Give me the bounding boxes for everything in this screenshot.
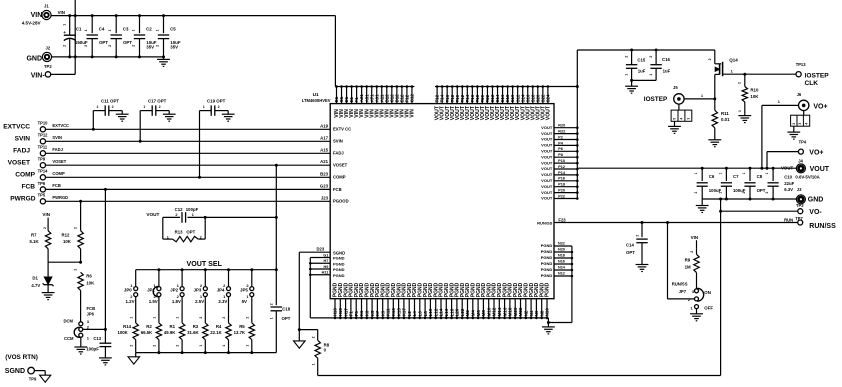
svg-text:M22: M22 bbox=[518, 307, 523, 316]
svg-text:M16: M16 bbox=[502, 307, 507, 316]
svg-text:1: 1 bbox=[84, 29, 88, 31]
svg-text:0.6V-5V/10A: 0.6V-5V/10A bbox=[795, 174, 819, 179]
resistor R5 13.7K bbox=[234, 296, 255, 352]
svg-text:JP1: JP1 bbox=[147, 287, 155, 292]
svg-text:D1: D1 bbox=[32, 275, 38, 280]
svg-text:M2: M2 bbox=[465, 310, 470, 317]
svg-text:L20: L20 bbox=[455, 308, 460, 316]
svg-text:VOUT: VOUT bbox=[541, 149, 553, 154]
jumper JP3 2.5V bbox=[194, 270, 208, 304]
svg-text:2: 2 bbox=[792, 123, 796, 125]
U1 pin D23 SGND bbox=[299, 247, 345, 256]
svg-text:K9: K9 bbox=[380, 310, 385, 316]
svg-text:CCM: CCM bbox=[64, 336, 74, 341]
svg-text:R1: R1 bbox=[170, 324, 176, 329]
svg-text:C17 OPT: C17 OPT bbox=[148, 98, 167, 103]
svg-text:L14: L14 bbox=[439, 308, 444, 316]
svg-text:1: 1 bbox=[176, 317, 180, 319]
svg-text:VO-: VO- bbox=[809, 209, 822, 216]
svg-text:N16: N16 bbox=[558, 260, 565, 264]
svg-text:C1: C1 bbox=[76, 27, 82, 32]
svg-text:L6: L6 bbox=[418, 311, 423, 317]
svg-text:L8: L8 bbox=[423, 311, 428, 317]
test point TP9 VOSET bbox=[8, 157, 67, 168]
U1 VOUT right pin rows bbox=[541, 124, 578, 201]
svg-text:ON: ON bbox=[704, 290, 711, 295]
svg-text:FCB: FCB bbox=[333, 187, 342, 192]
svg-text:R7: R7 bbox=[31, 233, 37, 238]
svg-text:VOUT: VOUT bbox=[541, 184, 553, 189]
svg-text:1: 1 bbox=[97, 105, 99, 109]
svg-text:TP10: TP10 bbox=[38, 121, 49, 126]
svg-text:N8: N8 bbox=[539, 310, 544, 316]
svg-text:4.7V: 4.7V bbox=[31, 283, 40, 288]
svg-text:R10: R10 bbox=[750, 88, 759, 93]
svg-text:2.5V: 2.5V bbox=[195, 299, 204, 304]
svg-text:3: 3 bbox=[798, 123, 802, 125]
resistor R4 22.1K bbox=[210, 296, 231, 352]
svg-text:1: 1 bbox=[222, 345, 226, 347]
svg-text:C4: C4 bbox=[99, 27, 105, 32]
connector J6 VO+ bbox=[762, 92, 828, 139]
svg-text:2: 2 bbox=[155, 45, 159, 47]
svg-text:R22: R22 bbox=[558, 130, 565, 134]
svg-text:R11: R11 bbox=[721, 111, 729, 116]
ground SGND triangle bbox=[294, 330, 306, 349]
svg-text:2: 2 bbox=[690, 251, 694, 253]
svg-text:VOUT: VOUT bbox=[545, 105, 551, 120]
svg-text:M20: M20 bbox=[513, 307, 518, 316]
svg-text:VOUT: VOUT bbox=[541, 196, 553, 201]
test point TP9 SGND bbox=[5, 367, 51, 382]
svg-text:(VOS RTN): (VOS RTN) bbox=[5, 354, 38, 361]
U1 PGND right pin rows bbox=[541, 242, 573, 279]
svg-text:LTM4600HVEV: LTM4600HVEV bbox=[302, 98, 331, 103]
connector J1 VIN terminal bbox=[22, 4, 65, 26]
svg-text:FADJ: FADJ bbox=[52, 147, 62, 152]
wire PGND right riser to ground bbox=[547, 246, 572, 324]
svg-text:R5: R5 bbox=[239, 324, 245, 329]
svg-text:H13: H13 bbox=[333, 308, 338, 317]
resistor R2 66.5K bbox=[141, 296, 162, 352]
op-amp U1 LTM4600HVEV module outline bbox=[302, 92, 554, 299]
capacitor C15 1uF bbox=[625, 50, 646, 80]
svg-text:2: 2 bbox=[63, 45, 67, 47]
svg-text:13.7K: 13.7K bbox=[234, 330, 246, 335]
svg-text:A15: A15 bbox=[320, 147, 328, 152]
svg-text:L4: L4 bbox=[412, 311, 417, 317]
svg-text:J4: J4 bbox=[798, 158, 803, 163]
U1 VIN top pins and bus bbox=[334, 16, 415, 118]
test point TP11 FADJ bbox=[13, 145, 63, 156]
svg-text:1: 1 bbox=[108, 29, 112, 31]
svg-text:100K: 100K bbox=[118, 330, 129, 335]
svg-text:1: 1 bbox=[199, 345, 203, 347]
svg-text:JP4: JP4 bbox=[217, 287, 225, 292]
svg-text:N14: N14 bbox=[558, 266, 566, 270]
svg-text:VOUT: VOUT bbox=[146, 212, 159, 217]
svg-text:PGND: PGND bbox=[541, 243, 553, 248]
resistor R3 31.6K bbox=[187, 296, 208, 352]
svg-text:VOUT: VOUT bbox=[541, 143, 553, 148]
svg-text:OPT: OPT bbox=[626, 250, 635, 255]
svg-text:M6: M6 bbox=[476, 310, 481, 317]
resistor R6 10K bbox=[74, 269, 96, 322]
svg-text:FCB: FCB bbox=[52, 183, 60, 188]
wire VO- row bbox=[719, 210, 798, 213]
svg-text:K3: K3 bbox=[365, 310, 370, 316]
test point TP7 RUN/SS bbox=[784, 216, 836, 230]
svg-text:VIN: VIN bbox=[58, 10, 65, 15]
svg-text:2: 2 bbox=[635, 235, 639, 237]
svg-text:2: 2 bbox=[74, 269, 78, 271]
svg-text:SVIN: SVIN bbox=[52, 135, 62, 140]
svg-text:VIN: VIN bbox=[410, 109, 416, 118]
svg-text:4.5V-28V: 4.5V-28V bbox=[22, 21, 42, 26]
capacitor C12 100pF bbox=[163, 207, 276, 223]
wire PGND left riser bbox=[309, 258, 311, 318]
svg-text:JP5: JP5 bbox=[240, 287, 248, 292]
svg-text:2: 2 bbox=[84, 45, 88, 47]
svg-text:VIN: VIN bbox=[31, 12, 43, 19]
svg-text:M18: M18 bbox=[508, 307, 513, 316]
svg-text:22uF: 22uF bbox=[784, 181, 794, 186]
svg-text:VOUT: VOUT bbox=[541, 160, 553, 165]
svg-text:1: 1 bbox=[625, 74, 629, 76]
svg-text:1: 1 bbox=[245, 345, 249, 347]
svg-text:C10: C10 bbox=[784, 174, 792, 179]
jumper JP4 3.3V bbox=[217, 270, 231, 304]
wire SGND riser bbox=[298, 252, 301, 331]
svg-text:1M: 1M bbox=[685, 264, 691, 269]
capacitor C17 OPT bbox=[139, 98, 176, 142]
svg-text:2: 2 bbox=[159, 105, 161, 109]
svg-text:K15: K15 bbox=[396, 308, 401, 317]
label C10 value bbox=[784, 174, 794, 192]
capacitor C6 100uF bbox=[694, 168, 721, 199]
svg-text:1: 1 bbox=[269, 317, 273, 319]
U1 PGND bottom pins bbox=[333, 282, 551, 319]
svg-text:FCB: FCB bbox=[21, 184, 35, 191]
svg-text:VOUT: VOUT bbox=[810, 166, 830, 173]
svg-text:L16: L16 bbox=[444, 308, 449, 316]
svg-text:VOUT: VOUT bbox=[541, 137, 553, 142]
svg-text:TP12: TP12 bbox=[38, 133, 49, 138]
svg-text:P2: P2 bbox=[558, 135, 563, 139]
svg-text:2: 2 bbox=[74, 227, 78, 229]
svg-text:TP3: TP3 bbox=[796, 203, 804, 208]
svg-text:PGOOD: PGOOD bbox=[333, 199, 349, 204]
wire output GND bbox=[702, 198, 796, 201]
connector J4 VOUT terminal bbox=[781, 158, 830, 179]
svg-text:L12: L12 bbox=[433, 308, 438, 316]
wire VOSET riser bbox=[275, 164, 278, 305]
svg-text:M8: M8 bbox=[481, 310, 486, 317]
capacitor C19 OPT bbox=[198, 98, 235, 178]
svg-text:N20: N20 bbox=[558, 248, 565, 252]
test point VIN- terminal bbox=[31, 72, 51, 80]
svg-text:L2: L2 bbox=[407, 311, 412, 317]
svg-text:2: 2 bbox=[311, 336, 315, 338]
svg-text:PGND: PGND bbox=[541, 255, 553, 260]
svg-text:2: 2 bbox=[625, 56, 629, 58]
svg-text:1.2V: 1.2V bbox=[126, 299, 135, 304]
svg-text:150uF: 150uF bbox=[75, 40, 88, 45]
svg-text:PGND: PGND bbox=[541, 267, 553, 272]
svg-text:66.5K: 66.5K bbox=[141, 330, 153, 335]
svg-text:OPT: OPT bbox=[282, 316, 291, 321]
svg-text:OPT: OPT bbox=[186, 229, 195, 234]
svg-text:2: 2 bbox=[694, 192, 698, 194]
svg-text:10K: 10K bbox=[86, 280, 95, 285]
svg-text:PGND: PGND bbox=[333, 267, 345, 272]
svg-text:TP11: TP11 bbox=[38, 145, 48, 150]
svg-text:G12: G12 bbox=[410, 94, 415, 103]
test point TP3 VO- bbox=[796, 203, 822, 216]
svg-text:10K: 10K bbox=[750, 94, 759, 99]
svg-text:C15: C15 bbox=[637, 58, 645, 63]
label VOS RTN bbox=[5, 354, 38, 361]
svg-text:C6: C6 bbox=[709, 174, 715, 179]
svg-text:2: 2 bbox=[742, 192, 746, 194]
svg-text:CLK: CLK bbox=[805, 80, 819, 87]
svg-text:N4: N4 bbox=[529, 310, 534, 316]
svg-text:P6: P6 bbox=[558, 147, 563, 151]
svg-text:TP9: TP9 bbox=[38, 157, 46, 162]
capacitor C2 10uF 35V bbox=[131, 14, 157, 58]
svg-text:G1: G1 bbox=[323, 253, 328, 257]
svg-text:2: 2 bbox=[43, 227, 47, 229]
wire VOUT right riser bbox=[576, 50, 578, 199]
svg-text:2: 2 bbox=[112, 105, 114, 109]
svg-text:1: 1 bbox=[742, 172, 746, 174]
svg-text:C11 OPT: C11 OPT bbox=[101, 98, 119, 103]
svg-text:M4: M4 bbox=[471, 310, 476, 317]
svg-text:H7: H7 bbox=[324, 259, 329, 263]
wire VOUT SEL top bus bbox=[136, 268, 278, 271]
svg-text:COMP: COMP bbox=[52, 171, 65, 176]
ground output caps bbox=[696, 199, 709, 213]
svg-text:VOUT: VOUT bbox=[541, 190, 553, 195]
svg-text:IOSTEP: IOSTEP bbox=[644, 96, 668, 103]
svg-text:COMP: COMP bbox=[333, 175, 346, 180]
test point TP13 IOSTEP CLK bbox=[796, 62, 830, 87]
svg-text:P12: P12 bbox=[558, 165, 565, 169]
svg-text:B23: B23 bbox=[320, 171, 328, 176]
svg-text:1: 1 bbox=[649, 74, 653, 76]
svg-text:EXTV CC: EXTV CC bbox=[333, 127, 351, 132]
svg-text:3: 3 bbox=[686, 118, 690, 120]
svg-text:M10: M10 bbox=[486, 307, 491, 316]
svg-text:10K: 10K bbox=[63, 239, 72, 244]
svg-text:2: 2 bbox=[738, 82, 742, 84]
svg-text:VOUT: VOUT bbox=[541, 178, 553, 183]
svg-text:H11: H11 bbox=[322, 271, 329, 275]
svg-text:TP5: TP5 bbox=[38, 193, 46, 198]
svg-text:Q14: Q14 bbox=[729, 58, 738, 63]
capacitor C5 10uF 35V bbox=[155, 14, 181, 58]
svg-text:EXTVCC: EXTVCC bbox=[3, 124, 30, 131]
wire PGND bottom bus bbox=[310, 317, 548, 319]
svg-text:VIN-: VIN- bbox=[31, 73, 46, 80]
svg-text:1: 1 bbox=[131, 29, 135, 31]
svg-text:VOUT: VOUT bbox=[541, 125, 553, 130]
svg-text:1: 1 bbox=[203, 105, 205, 109]
svg-text:J1: J1 bbox=[44, 4, 49, 9]
U1 VOUT top pins and bus bbox=[435, 85, 579, 120]
svg-text:0.01: 0.01 bbox=[721, 117, 730, 122]
svg-text:F23: F23 bbox=[558, 217, 566, 222]
svg-text:SGND: SGND bbox=[5, 368, 25, 375]
svg-text:VOSET: VOSET bbox=[8, 159, 30, 166]
capacitor C8 OPT bbox=[742, 168, 766, 199]
svg-text:PGND: PGND bbox=[541, 249, 553, 254]
svg-text:PGND: PGND bbox=[541, 273, 553, 278]
svg-text:1: 1 bbox=[192, 213, 194, 217]
svg-text:PGND: PGND bbox=[545, 282, 551, 297]
svg-text:N18: N18 bbox=[558, 254, 565, 258]
svg-text:A17: A17 bbox=[320, 135, 328, 140]
svg-text:K17: K17 bbox=[402, 308, 407, 317]
ground VOUT SEL signal ground bbox=[128, 353, 140, 365]
wire R7-R12 junction bbox=[48, 261, 82, 264]
transistor Q14 MOSFET bbox=[708, 50, 745, 98]
resistor R12 10K bbox=[62, 200, 84, 262]
svg-text:100pF: 100pF bbox=[186, 207, 199, 212]
jumper JP6 FCB DCM/CCM bbox=[64, 306, 102, 354]
svg-text:VIN: VIN bbox=[42, 212, 50, 217]
diode D1 4.7V zener bbox=[31, 262, 54, 299]
svg-text:GND: GND bbox=[808, 197, 824, 204]
capacitor C10 22uF 6.3V bbox=[765, 168, 779, 199]
svg-text:VOUT: VOUT bbox=[541, 172, 553, 177]
svg-text:J23: J23 bbox=[321, 195, 329, 200]
svg-text:K7: K7 bbox=[375, 310, 380, 316]
svg-text:SVIN: SVIN bbox=[333, 139, 343, 144]
connector J2 GND terminal bbox=[26, 45, 52, 69]
svg-text:2: 2 bbox=[269, 303, 273, 305]
wire riser to top edge bbox=[74, 0, 77, 74]
svg-text:R13: R13 bbox=[175, 229, 183, 234]
svg-text:C5: C5 bbox=[170, 27, 176, 32]
jumper JP5 5V bbox=[240, 270, 254, 304]
wire TP4 riser to VOUT bbox=[766, 152, 768, 169]
test point TP12 SVIN bbox=[15, 133, 62, 144]
svg-text:2: 2 bbox=[131, 45, 135, 47]
svg-text:TP2: TP2 bbox=[44, 64, 52, 69]
wire RUN/SS to JP7 pin2 bbox=[668, 223, 695, 299]
svg-text:GND: GND bbox=[26, 55, 42, 62]
svg-text:VOUT: VOUT bbox=[541, 131, 553, 136]
wire RUN/SS row bbox=[554, 221, 798, 224]
svg-text:2: 2 bbox=[649, 56, 653, 58]
U1 PGND left pin rows bbox=[309, 253, 345, 277]
svg-text:L18: L18 bbox=[449, 308, 454, 316]
svg-text:R6: R6 bbox=[86, 274, 92, 279]
resistor R10 10K bbox=[738, 74, 760, 122]
svg-text:5.1K: 5.1K bbox=[30, 239, 40, 244]
svg-text:VOUT: VOUT bbox=[541, 154, 553, 159]
wire FADJ row bbox=[46, 152, 331, 154]
svg-text:R2: R2 bbox=[146, 324, 152, 329]
svg-text:OFF: OFF bbox=[704, 305, 713, 310]
svg-text:FADJ: FADJ bbox=[333, 151, 344, 156]
capacitor C1 150uF bbox=[63, 14, 88, 58]
resistor R1 49.9K bbox=[164, 296, 185, 352]
wire FCB row bbox=[46, 188, 331, 190]
svg-text:2: 2 bbox=[108, 45, 112, 47]
wire VOS return bottom bbox=[318, 375, 721, 377]
svg-text:PGND: PGND bbox=[333, 273, 345, 278]
wire PWRGD row bbox=[46, 200, 331, 202]
svg-text:R12: R12 bbox=[62, 233, 70, 238]
svg-text:1: 1 bbox=[167, 235, 169, 239]
svg-text:C12: C12 bbox=[175, 207, 183, 212]
svg-text:M14: M14 bbox=[497, 307, 502, 316]
svg-text:TP9: TP9 bbox=[29, 377, 37, 382]
svg-text:IOSTEP: IOSTEP bbox=[805, 73, 830, 80]
svg-text:C7: C7 bbox=[733, 174, 739, 179]
svg-text:C8: C8 bbox=[757, 174, 763, 179]
svg-text:1: 1 bbox=[155, 29, 159, 31]
test point TP6 FCB bbox=[21, 181, 60, 192]
svg-text:31.6K: 31.6K bbox=[187, 330, 199, 335]
jumper JP2 1.8V bbox=[170, 270, 184, 304]
svg-text:5: 5 bbox=[673, 118, 677, 120]
svg-text:PGND: PGND bbox=[333, 256, 345, 261]
svg-text:N2: N2 bbox=[524, 310, 529, 316]
U1 left pin names bbox=[320, 123, 351, 203]
svg-text:VOUT: VOUT bbox=[781, 166, 794, 171]
wire J6 riser to VOUT bbox=[761, 105, 763, 168]
wire VOUT top to Q14 bbox=[577, 49, 715, 52]
svg-text:R14: R14 bbox=[123, 324, 131, 329]
svg-text:P18: P18 bbox=[558, 183, 565, 187]
capacitor C13 100pF bbox=[86, 343, 112, 365]
connector J5 IOSTEP bbox=[644, 85, 692, 133]
svg-text:1: 1 bbox=[738, 110, 742, 112]
svg-text:4: 4 bbox=[680, 118, 684, 120]
svg-text:2: 2 bbox=[222, 317, 226, 319]
test point TP14 COMP bbox=[15, 169, 65, 180]
svg-text:TP6: TP6 bbox=[38, 181, 46, 186]
svg-text:C3: C3 bbox=[123, 27, 129, 32]
svg-text:C16: C16 bbox=[662, 57, 670, 62]
wire EXTVCC row bbox=[46, 128, 331, 130]
svg-text:H9: H9 bbox=[324, 265, 329, 269]
svg-text:R20: R20 bbox=[558, 124, 565, 128]
svg-text:U1: U1 bbox=[313, 92, 319, 98]
wire GND from J2 to input cap ground bbox=[52, 56, 164, 58]
wire VOUT output bbox=[577, 167, 797, 170]
svg-text:PGND: PGND bbox=[333, 261, 345, 266]
svg-text:JP2: JP2 bbox=[170, 287, 178, 292]
svg-text:JP3: JP3 bbox=[194, 287, 202, 292]
jumper JP1 1.5V bbox=[147, 270, 161, 304]
svg-text:RUN/SS: RUN/SS bbox=[537, 220, 552, 225]
svg-text:K1: K1 bbox=[359, 310, 364, 316]
svg-text:2: 2 bbox=[200, 235, 202, 239]
svg-text:PWRGD: PWRGD bbox=[52, 195, 68, 200]
svg-text:J6: J6 bbox=[797, 92, 802, 97]
svg-text:SVIN: SVIN bbox=[15, 136, 31, 143]
svg-text:A19: A19 bbox=[320, 123, 328, 128]
capacitor C16 1uF bbox=[649, 50, 671, 80]
svg-text:JP0: JP0 bbox=[124, 287, 132, 292]
wire FCB riser bbox=[104, 188, 107, 343]
svg-text:N22: N22 bbox=[558, 242, 565, 246]
svg-text:P22: P22 bbox=[558, 194, 565, 198]
